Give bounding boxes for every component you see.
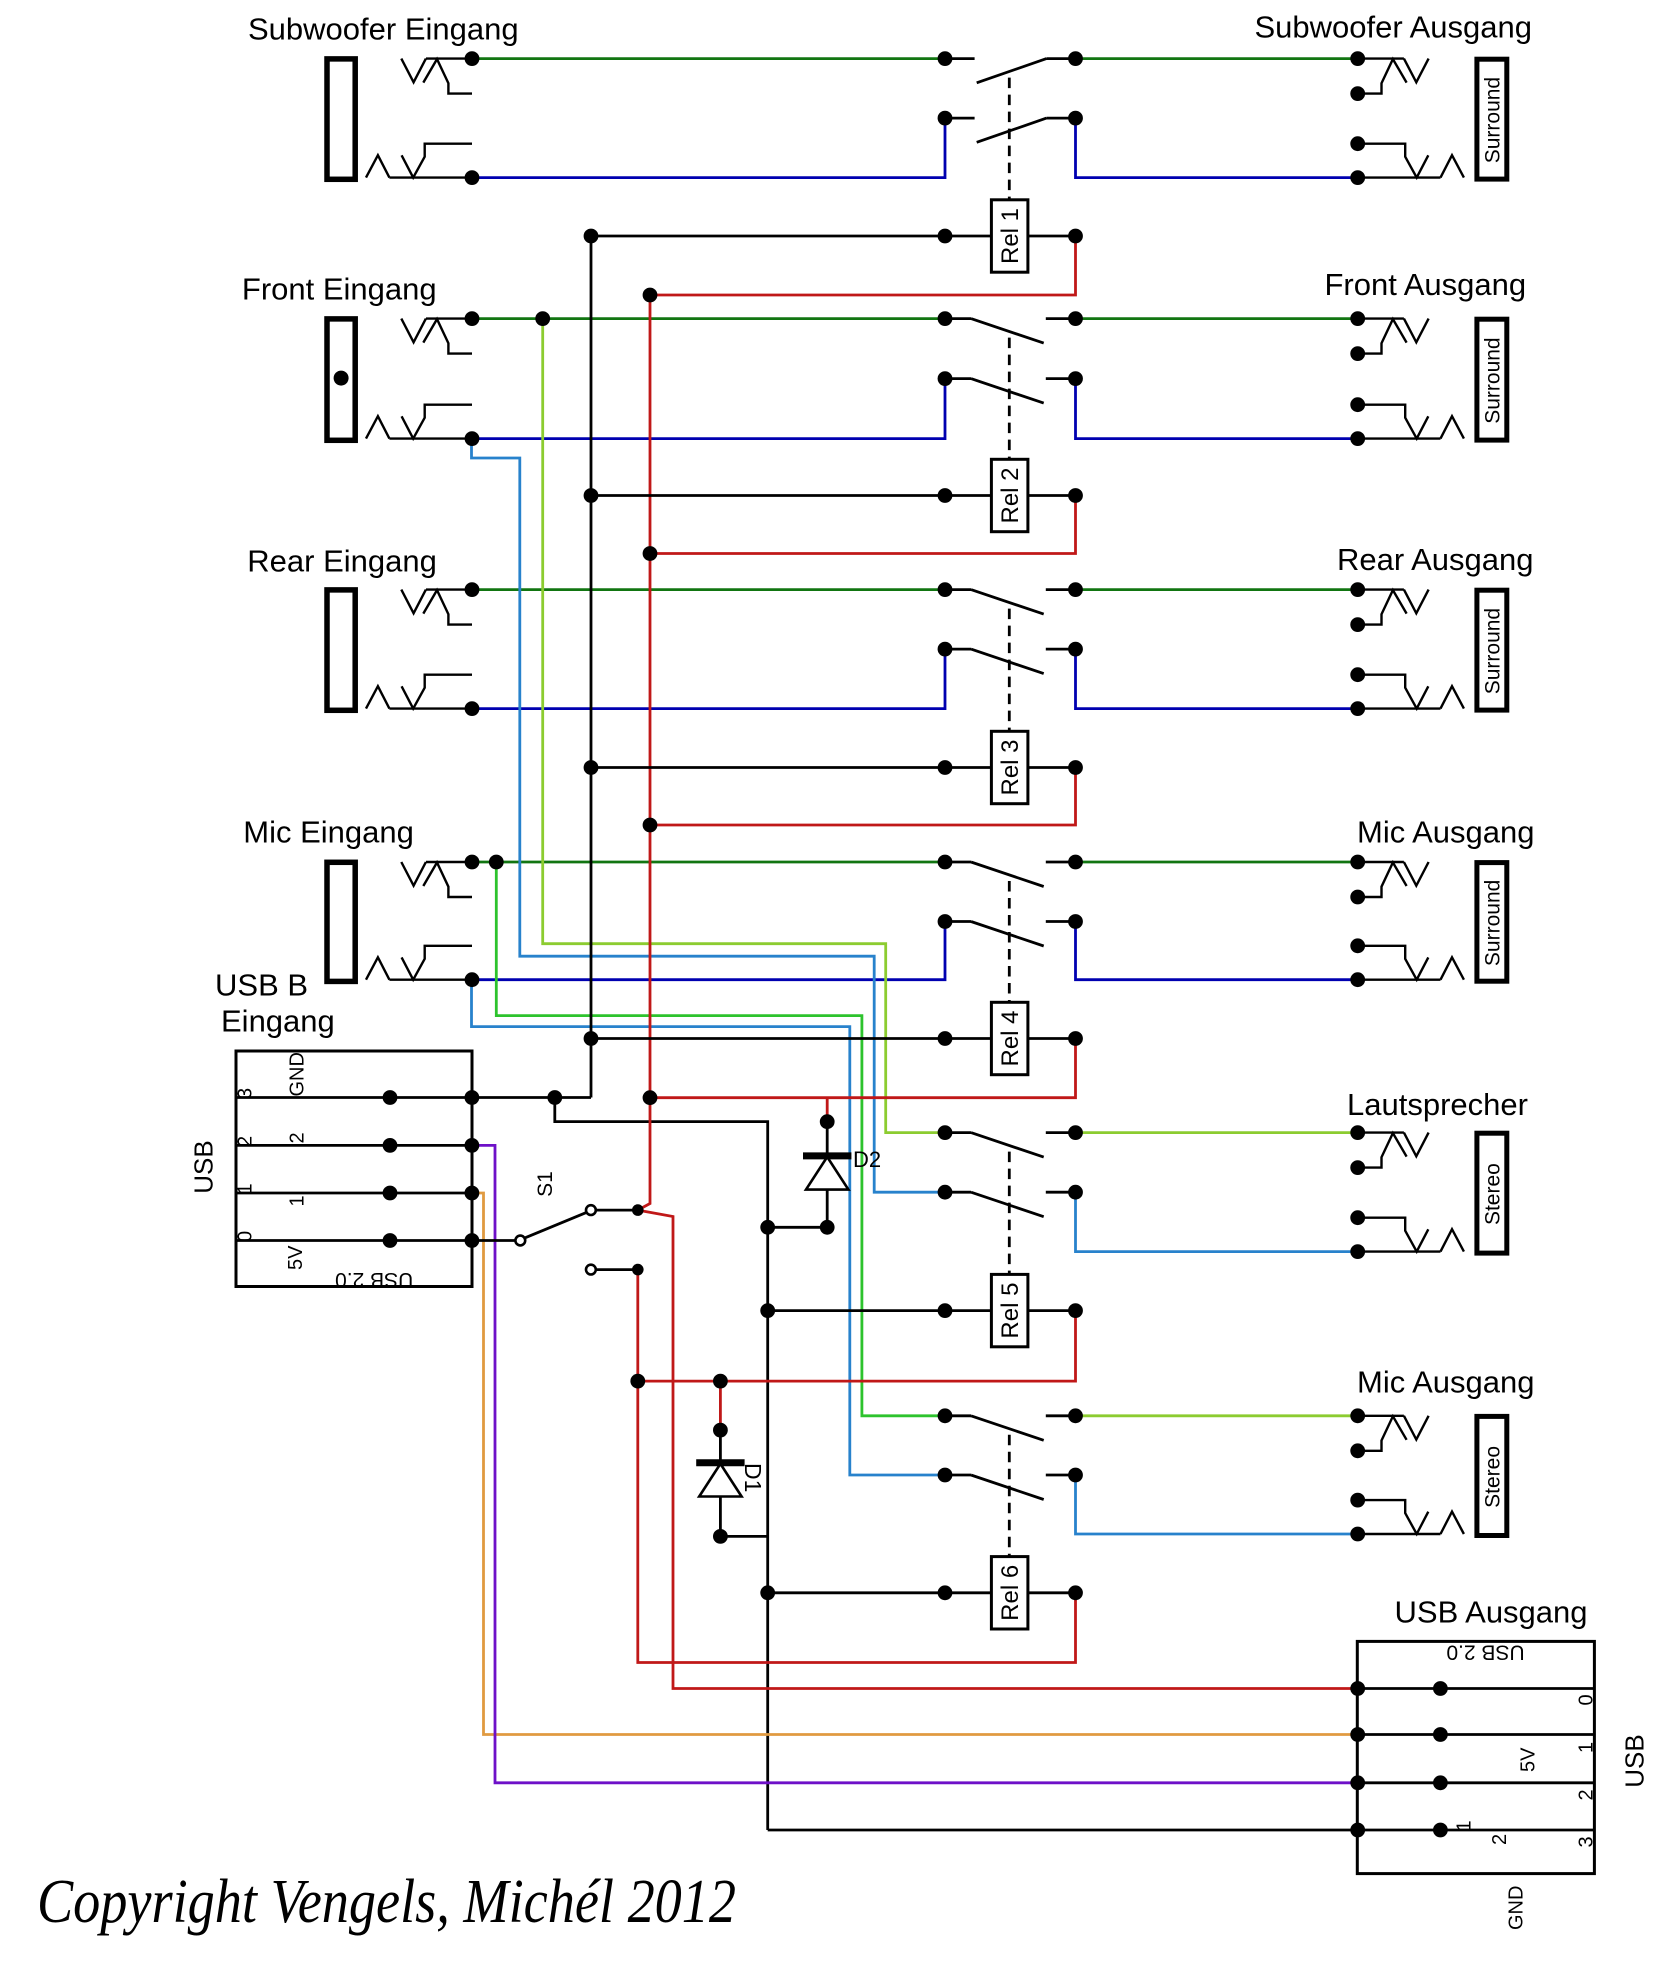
svg-text:0: 0 (1576, 1694, 1598, 1705)
relay Rel 2 ring contact row (945, 379, 1076, 404)
relay Rel 2 coil wire left (591, 494, 991, 497)
node J10 Mic-Ausgang-Stereo pin4 (1350, 1527, 1365, 1542)
relay Rel 3 ring contact row (945, 649, 1076, 674)
svg-text:Rel 6: Rel 6 (997, 1565, 1024, 1621)
svg-text:Front Eingang: Front Eingang (242, 272, 437, 307)
wire mic-stereo R out (light blue) (1076, 1475, 1358, 1534)
wire usb-in row 3 (236, 1096, 472, 1099)
svg-text:USB 2.0: USB 2.0 (335, 1268, 413, 1291)
wire usb data1 (orange) (472, 1193, 1358, 1735)
node J5 Subwoofer-Ausgang pin1 (1350, 51, 1365, 66)
wire usb-in row 1 (236, 1192, 472, 1195)
node usb-out pin a0 (1350, 1681, 1365, 1696)
node J10 Mic-Ausgang-Stereo pin3 (1350, 1493, 1365, 1508)
node Rel 6 coil feed (760, 1585, 775, 1600)
svg-text:USB Ausgang: USB Ausgang (1395, 1594, 1588, 1629)
node J9 Lautsprecher pin2 (1350, 1160, 1365, 1175)
diode D1 (696, 1430, 744, 1536)
node Rel 1 coil right (1068, 229, 1083, 244)
relay Rel 2 coil box (991, 459, 1028, 531)
node d2 cathode (820, 1114, 835, 1129)
svg-text:1: 1 (287, 1195, 309, 1206)
relay Rel 5 coil wire left (768, 1309, 992, 1312)
connector USB Ausgang box (1357, 1641, 1594, 1873)
jack J5 Subwoofer-Ausgang tip contact (1358, 59, 1429, 94)
wire s1 pole feed (472, 1239, 515, 1242)
node Rel 6 coil left (938, 1585, 953, 1600)
node Rel 5 ring left (938, 1185, 953, 1200)
svg-text:USB B: USB B (215, 968, 308, 1003)
node Rel 1 coil feed (584, 229, 599, 244)
node usb-in pin a1 (383, 1186, 398, 1201)
node J10 Mic-Ausgang-Stereo pin1 (1350, 1408, 1365, 1423)
node Rel 6 coil right (1068, 1585, 1083, 1600)
jack J9 Lautsprecher tip contact (1358, 1133, 1429, 1168)
svg-text:2: 2 (1489, 1834, 1511, 1845)
svg-text:5V: 5V (1518, 1747, 1540, 1772)
node Rel 2 coil left (938, 488, 953, 503)
node J9 Lautsprecher pin1 (1350, 1125, 1365, 1140)
svg-text:5V: 5V (285, 1245, 307, 1270)
jack J2 Front-Eingang tip contact (401, 319, 472, 354)
diode D2 (803, 1122, 851, 1228)
node Rel 2 coil right (1068, 488, 1083, 503)
wire usb-out row 2 (1357, 1781, 1594, 1784)
relay Rel 6 ring contact row (945, 1475, 1076, 1500)
node d1 cathode (713, 1423, 728, 1438)
node J6 Front-Ausgang pin2 (1350, 346, 1365, 361)
node J8 Mic-Ausgang pin3 (1350, 938, 1365, 953)
node Rel 3 tip right (1068, 582, 1083, 597)
jack J8 Mic-Ausgang barrel (1477, 863, 1507, 982)
jack J6 Front-Ausgang tip contact (1358, 319, 1429, 354)
node Rel 2 tip right (1068, 311, 1083, 326)
wire d1 anode link (720, 1535, 767, 1538)
wire usb-in row 2 (236, 1144, 472, 1147)
svg-text:Surround: Surround (1482, 337, 1505, 423)
wire mic-stereo L out (yellow-green) (1076, 1414, 1358, 1417)
jack J4 Mic-Eingang barrel (327, 862, 355, 981)
relay Rel 5 coil wire right (1028, 1309, 1076, 1312)
wire usb-in row 0 (236, 1239, 472, 1242)
node J5 Subwoofer-Ausgang pin2 (1350, 86, 1365, 101)
node red bus rel3 (643, 818, 658, 833)
svg-text:2: 2 (1576, 1789, 1598, 1800)
node s1 throw2 (632, 1264, 644, 1276)
wire d1 stub (red) (719, 1381, 722, 1430)
node J9 Lautsprecher pin4 (1350, 1244, 1365, 1259)
node Rel 6 ring left (938, 1468, 953, 1483)
node J7 Rear-Ausgang pin4 (1350, 701, 1365, 716)
wire front L in (green) (472, 317, 945, 320)
node Rel 1 coil left (938, 229, 953, 244)
svg-text:Front Ausgang: Front Ausgang (1325, 267, 1527, 302)
node Rel 5 coil left (938, 1303, 953, 1318)
jack J1 Subwoofer-Eingang tip contact (401, 59, 472, 94)
node J8 Mic-Ausgang pin4 (1350, 972, 1365, 987)
relay Rel 5 tip contact row (945, 1133, 1076, 1158)
node Rel 2 tip left (938, 311, 953, 326)
wire gnd to usb-out row3 (768, 1829, 1358, 1832)
node Rel 3 tip left (938, 582, 953, 597)
relay Rel 1 ring contact row (945, 118, 1076, 142)
svg-text:Subwoofer Eingang: Subwoofer Eingang (248, 11, 519, 46)
node J7 Rear-Ausgang pin1 (1350, 582, 1365, 597)
jack J9 Lautsprecher sleeve contact (1358, 1218, 1464, 1252)
node Rel 5 tip left (938, 1125, 953, 1140)
node mic L tap (489, 855, 504, 870)
jack J7 Rear-Ausgang barrel (1477, 590, 1507, 710)
wire Front R in (blue) (472, 379, 945, 439)
wire subwoofer L out (green) (1076, 57, 1358, 60)
node Rel 4 ring left (938, 914, 953, 929)
relay Rel 6 coil wire right (1028, 1591, 1076, 1594)
node Rel 1 tip left (938, 51, 953, 66)
node usb-out pin a1 (1350, 1727, 1365, 1742)
wire d2 stub (red) (826, 1098, 829, 1122)
svg-text:Surround: Surround (1482, 608, 1505, 694)
node J7 Rear-Ausgang pin2 (1350, 617, 1365, 632)
switch S1 (515, 1205, 637, 1274)
svg-text:Rel 2: Rel 2 (997, 467, 1024, 523)
relay Rel 5 actuation dashed link (1008, 1152, 1011, 1275)
wire red bus vertical (638, 295, 650, 1210)
node J5 Subwoofer-Ausgang pin4 (1350, 170, 1365, 185)
svg-text:Surround: Surround (1482, 77, 1505, 163)
node red bus rel2 (643, 546, 658, 561)
wire usb-in gnd extension (472, 1096, 555, 1099)
wire usb-out row 3 (1357, 1829, 1594, 1832)
relay Rel 4 coil wire left (591, 1037, 991, 1040)
svg-text:3: 3 (1576, 1836, 1598, 1847)
svg-text:2: 2 (287, 1132, 309, 1143)
node Rel 2 ring left (938, 371, 953, 386)
wire usb-out row 0 (1357, 1687, 1594, 1690)
wire mic L out (green) (1076, 861, 1358, 864)
wire relay common bus vertical (590, 236, 593, 1098)
wire Rear R out (blue) (1076, 649, 1358, 709)
node d2 anode (820, 1220, 835, 1235)
wire speaker R out (light blue) (1076, 1192, 1358, 1251)
node gnd junction (547, 1090, 562, 1105)
node J6 Front-Ausgang pin3 (1350, 397, 1365, 412)
jack J6 Front-Ausgang barrel (1477, 319, 1507, 440)
wire Mic R in (blue) (472, 922, 945, 980)
node Rel 1 tip right (1068, 51, 1083, 66)
node Rel 5 tip right (1068, 1125, 1083, 1140)
relay Rel 3 coil wire left (591, 766, 991, 769)
wire front L tap to speaker (yellow-green) (543, 319, 945, 1133)
wire usb data2 (purple) (472, 1145, 1358, 1782)
jack J3 Rear-Eingang sleeve contact (366, 675, 472, 709)
svg-text:Mic Ausgang: Mic Ausgang (1357, 1364, 1535, 1399)
relay Rel 1 tip contact row (945, 59, 1076, 83)
relay Rel 1 coil wire left (591, 235, 991, 238)
wire s1 throw2 down (red) (638, 1270, 1076, 1663)
wire subwoofer L in (green) (472, 57, 945, 60)
svg-text:Mic Ausgang: Mic Ausgang (1357, 814, 1535, 849)
node Rel 2 ring right (1068, 371, 1083, 386)
wire mic L tap to stereo out (pure green) (496, 862, 945, 1416)
node d1 anode (713, 1529, 728, 1544)
node J4 Mic-Eingang tip (465, 855, 480, 870)
jack J7 Rear-Ausgang tip contact (1358, 590, 1429, 625)
svg-text:S1: S1 (534, 1171, 557, 1197)
node usb-out pin b3 (1433, 1823, 1448, 1838)
wire front L out (green) (1076, 317, 1358, 320)
node J9 Lautsprecher pin3 (1350, 1210, 1365, 1225)
node J4 Mic-Eingang sleeve (465, 972, 480, 987)
wire gnd drop (555, 1098, 768, 1831)
node J1 Subwoofer-Eingang tip (465, 51, 480, 66)
relay Rel 6 coil wire left (768, 1591, 992, 1594)
svg-text:1: 1 (1454, 1820, 1476, 1831)
jack J4 Mic-Eingang tip contact (401, 862, 472, 897)
jack J2 Front-Eingang barrel mark (334, 371, 349, 386)
relay Rel 4 ring contact row (945, 922, 1076, 947)
node Rel 6 ring right (1068, 1468, 1083, 1483)
node usb-in pin b1 (465, 1186, 480, 1201)
node gnd rail d2 (760, 1220, 775, 1235)
svg-text:3: 3 (235, 1088, 257, 1099)
wire speaker L out (yellow-green) (1076, 1131, 1358, 1134)
relay Rel 6 actuation dashed link (1008, 1435, 1011, 1557)
svg-text:Eingang: Eingang (221, 1003, 335, 1038)
node Rel 3 coil feed (584, 760, 599, 775)
svg-text:2: 2 (235, 1136, 257, 1147)
svg-text:Rel 1: Rel 1 (997, 208, 1024, 264)
svg-text:Stereo: Stereo (1482, 1446, 1505, 1508)
node Rel 1 ring right (1068, 111, 1083, 126)
wire rear L out (green) (1076, 588, 1358, 591)
relay Rel 2 coil wire right (1028, 494, 1076, 497)
node Rel 3 ring left (938, 642, 953, 657)
wire s1 throw1 to usb-out 5V (red) (638, 1210, 1358, 1688)
svg-text:GND: GND (287, 1052, 309, 1096)
node Rel 4 tip right (1068, 855, 1083, 870)
node Rel 5 coil right (1068, 1303, 1083, 1318)
node Rel 2 coil feed (584, 488, 599, 503)
relay Rel 5 coil box (991, 1274, 1028, 1346)
node J10 Mic-Ausgang-Stereo pin2 (1350, 1443, 1365, 1458)
svg-text:D2: D2 (853, 1147, 881, 1172)
svg-text:USB 2.0: USB 2.0 (1446, 1641, 1524, 1664)
svg-text:0: 0 (235, 1231, 257, 1242)
node J6 Front-Ausgang pin4 (1350, 431, 1365, 446)
wire d2 anode link (768, 1226, 828, 1229)
node usb-in pin b0 (465, 1233, 480, 1248)
jack J1 Subwoofer-Eingang barrel (327, 59, 355, 179)
node d1 top (713, 1374, 728, 1389)
relay Rel 4 coil wire right (1028, 1037, 1076, 1040)
node J2 Front-Eingang sleeve (465, 431, 480, 446)
node Rel 5 ring right (1068, 1185, 1083, 1200)
wire mic R tap to stereo out (light blue) (472, 980, 946, 1475)
svg-text:Mic Eingang: Mic Eingang (243, 815, 414, 850)
relay Rel 2 actuation dashed link (1008, 338, 1011, 460)
wire rel3 feed (red) (650, 768, 1076, 826)
svg-text:Rel 4: Rel 4 (997, 1010, 1024, 1066)
node Rel 1 ring left (938, 111, 953, 126)
node usb-out pin b1 (1433, 1727, 1448, 1742)
relay Rel 5 ring contact row (945, 1192, 1076, 1217)
svg-text:Rear Eingang: Rear Eingang (247, 544, 437, 579)
wire usb-out row 1 (1357, 1733, 1594, 1736)
relay Rel 1 coil wire right (1028, 235, 1076, 238)
node red bus rel4 (643, 1090, 658, 1105)
jack J5 Subwoofer-Ausgang barrel (1477, 59, 1507, 179)
jack J3 Rear-Eingang tip contact (401, 590, 472, 625)
jack J1 Subwoofer-Eingang sleeve contact (366, 144, 472, 178)
node Rel 4 tip left (938, 855, 953, 870)
wire rel5 feed (red) (638, 1311, 1076, 1382)
node usb-in pin a0 (383, 1233, 398, 1248)
svg-text:Stereo: Stereo (1482, 1163, 1505, 1225)
wire front R tap to speaker (light blue) (472, 439, 946, 1193)
wire Front R out (blue) (1076, 379, 1358, 439)
relay Rel 1 actuation dashed link (1008, 78, 1011, 200)
node usb-in pin a3 (383, 1090, 398, 1105)
node J8 Mic-Ausgang pin2 (1350, 890, 1365, 905)
svg-text:D1: D1 (740, 1463, 766, 1492)
jack J2 Front-Eingang barrel (327, 319, 355, 440)
jack J10 Mic-Ausgang-Stereo tip contact (1358, 1416, 1429, 1451)
svg-text:Lautsprecher: Lautsprecher (1347, 1087, 1528, 1122)
jack J10 Mic-Ausgang-Stereo barrel (1477, 1416, 1507, 1535)
relay Rel 3 coil wire right (1028, 766, 1076, 769)
node front L tap (535, 311, 550, 326)
jack J9 Lautsprecher barrel (1477, 1133, 1507, 1253)
relay Rel 4 tip contact row (945, 862, 1076, 887)
jack J2 Front-Eingang sleeve contact (366, 405, 472, 439)
wire Subwoofer R out (blue) (1076, 118, 1358, 178)
node Rel 3 coil left (938, 760, 953, 775)
wire gnd jog to bus (555, 1096, 591, 1099)
svg-text:USB: USB (1620, 1734, 1650, 1787)
node J3 Rear-Eingang sleeve (465, 701, 480, 716)
relay Rel 6 tip contact row (945, 1416, 1076, 1441)
wire Mic R out (blue) (1076, 922, 1358, 980)
jack J4 Mic-Eingang sleeve contact (366, 946, 472, 980)
node usb-in pin b3 (465, 1090, 480, 1105)
relay Rel 4 coil box (991, 1002, 1028, 1074)
node red rel5 branch (630, 1374, 645, 1389)
node Rel 4 ring right (1068, 914, 1083, 929)
node Rel 5 coil feed (760, 1303, 775, 1318)
wire rel2 feed (red) (650, 496, 1076, 554)
relay Rel 2 tip contact row (945, 319, 1076, 344)
node J5 Subwoofer-Ausgang pin3 (1350, 136, 1365, 151)
connector USB-B Eingang box (236, 1051, 472, 1287)
svg-text:Rel 5: Rel 5 (997, 1283, 1024, 1339)
relay Rel 4 actuation dashed link (1008, 881, 1011, 1002)
node J1 Subwoofer-Eingang sleeve (465, 170, 480, 185)
node J2 Front-Eingang tip (465, 311, 480, 326)
relay Rel 1 coil box (991, 200, 1028, 272)
svg-text:Rear Ausgang: Rear Ausgang (1337, 542, 1533, 577)
svg-text:1: 1 (235, 1183, 257, 1194)
jack J7 Rear-Ausgang sleeve contact (1358, 675, 1464, 709)
jack J3 Rear-Eingang barrel (327, 590, 355, 710)
svg-text:Rel 3: Rel 3 (997, 739, 1024, 795)
jack J6 Front-Ausgang sleeve contact (1358, 405, 1464, 439)
relay Rel 3 tip contact row (945, 590, 1076, 615)
node Rel 4 coil left (938, 1031, 953, 1046)
node usb-in pin a2 (383, 1138, 398, 1153)
node J3 Rear-Eingang tip (465, 582, 480, 597)
svg-text:GND: GND (1506, 1886, 1528, 1930)
node Rel 3 ring right (1068, 642, 1083, 657)
relay Rel 6 coil box (991, 1557, 1028, 1629)
svg-text:1: 1 (1576, 1742, 1598, 1753)
svg-text:Surround: Surround (1482, 880, 1505, 966)
wire Subwoofer R in (blue) (472, 118, 945, 178)
node Rel 4 coil right (1068, 1031, 1083, 1046)
wire mic L in (green) (472, 861, 946, 864)
node Rel 6 tip left (938, 1408, 953, 1423)
wire rear L in (green) (472, 588, 945, 591)
svg-text:Subwoofer Ausgang: Subwoofer Ausgang (1255, 9, 1533, 44)
node Rel 6 tip right (1068, 1408, 1083, 1423)
node usb-out pin b0 (1433, 1681, 1448, 1696)
node usb-out pin b2 (1433, 1775, 1448, 1790)
svg-text:USB: USB (189, 1140, 219, 1193)
jack J10 Mic-Ausgang-Stereo sleeve contact (1358, 1500, 1464, 1534)
node Rel 3 coil right (1068, 760, 1083, 775)
svg-text:Copyright Vengels, Michél 2012: Copyright Vengels, Michél 2012 (37, 1867, 736, 1936)
wire Rear R in (blue) (472, 649, 945, 709)
node usb-out pin a3 (1350, 1823, 1365, 1838)
node red bus rel1 (643, 288, 658, 303)
node usb-in pin b2 (465, 1138, 480, 1153)
node Rel 4 coil feed (584, 1031, 599, 1046)
jack J8 Mic-Ausgang sleeve contact (1358, 946, 1464, 980)
node J7 Rear-Ausgang pin3 (1350, 667, 1365, 682)
relay Rel 3 actuation dashed link (1008, 609, 1011, 732)
wire rel1 feed (red) (650, 236, 1076, 295)
jack J5 Subwoofer-Ausgang sleeve contact (1358, 144, 1464, 178)
node J6 Front-Ausgang pin1 (1350, 311, 1365, 326)
node J8 Mic-Ausgang pin1 (1350, 855, 1365, 870)
wire rel4 feed (red) (650, 1039, 1076, 1098)
jack J8 Mic-Ausgang tip contact (1358, 862, 1429, 897)
relay Rel 3 coil box (991, 731, 1028, 803)
node s1 throw1 (632, 1204, 644, 1216)
node usb-out pin a2 (1350, 1775, 1365, 1790)
